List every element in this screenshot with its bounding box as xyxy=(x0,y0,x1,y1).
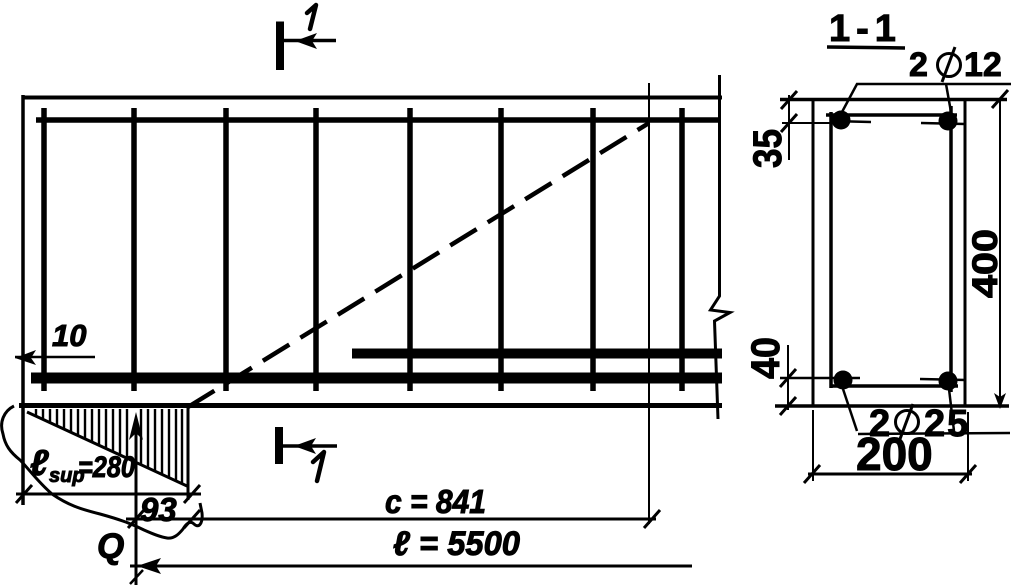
shear diagram hypotenuse xyxy=(27,412,187,486)
rebar dot bottom-right xyxy=(920,372,966,391)
label Q xyxy=(97,527,124,566)
section cut mark bottom xyxy=(279,427,337,464)
stirrup 8 xyxy=(679,108,685,391)
svg-text:93: 93 xyxy=(140,491,177,528)
dimension line l=5500 xyxy=(130,558,692,574)
top reinforcement bar xyxy=(36,117,721,123)
svg-text:12: 12 xyxy=(964,46,1002,84)
label lsup=280 xyxy=(30,442,135,487)
label c=841 xyxy=(385,483,486,520)
svg-text:Q: Q xyxy=(97,527,124,566)
dimension line lsup=280 xyxy=(16,485,201,503)
stirrup 3 xyxy=(223,108,229,391)
label 2d12 xyxy=(909,46,1002,84)
section stirrup inner rectangle xyxy=(826,106,958,392)
bottom reinforcement bar lower xyxy=(31,373,722,384)
svg-text:ℓ = 5500: ℓ = 5500 xyxy=(393,525,520,563)
shear diagram hatching xyxy=(36,409,182,484)
stirrup 5 xyxy=(407,108,413,391)
dimension 10 arrow and line xyxy=(15,350,95,365)
shear diagram right edge xyxy=(187,408,190,500)
dimension 40 xyxy=(780,345,860,415)
svg-text:c = 841: c = 841 xyxy=(385,483,486,520)
svg-text:200: 200 xyxy=(856,428,933,480)
leader 2d25 xyxy=(843,389,1010,434)
svg-text:400: 400 xyxy=(966,229,1005,298)
label 93 xyxy=(140,491,177,528)
rebar dot bottom-left xyxy=(834,371,853,390)
svg-text:1-1: 1-1 xyxy=(829,8,902,50)
beam right edge with break xyxy=(711,75,731,419)
beam outline top edge xyxy=(22,96,722,100)
svg-text:ℓ: ℓ xyxy=(30,442,49,483)
label 35 rotated xyxy=(746,129,790,168)
dimension 10 label xyxy=(52,318,86,353)
leader 2d12 xyxy=(842,84,1011,112)
beam outline bottom edge xyxy=(19,403,722,408)
svg-text:35: 35 xyxy=(746,129,790,168)
label 2d25 xyxy=(869,403,970,445)
label l=5500 xyxy=(393,525,520,563)
bottom reinforcement bar upper (cut-off bar) xyxy=(352,349,722,359)
label 400 rotated xyxy=(966,229,1005,298)
rebar dot top-left xyxy=(832,111,872,130)
section cut label 1 bottom xyxy=(313,452,324,481)
svg-text:40: 40 xyxy=(744,337,788,379)
dimension line 93 / c=841 xyxy=(126,510,660,528)
stirrup 7 xyxy=(590,108,596,391)
stirrup 1 xyxy=(41,108,47,391)
dimension 400 xyxy=(992,90,1008,409)
stirrup 4 xyxy=(313,108,319,391)
section cut label 1 top xyxy=(307,5,316,29)
section title 1-1 xyxy=(827,8,905,50)
beam outline left edge / extension line xyxy=(21,95,25,505)
rebar dot top-right xyxy=(921,112,965,131)
label 200 xyxy=(856,428,933,480)
stirrup 2 xyxy=(131,108,137,391)
dimension 35 xyxy=(781,91,830,160)
svg-text:2: 2 xyxy=(909,46,928,84)
dashed bar cut-off diagonal xyxy=(188,123,649,407)
svg-text:10: 10 xyxy=(52,318,86,353)
stirrup 6 xyxy=(498,108,504,391)
shear diagram freehand outline xyxy=(2,406,203,538)
extension line at bar cut-off xyxy=(648,83,650,524)
svg-text:=280: =280 xyxy=(78,451,135,484)
support reaction arrow Q xyxy=(129,412,143,585)
dimension 200 xyxy=(804,410,976,483)
label 40 rotated xyxy=(744,337,788,379)
section cut mark top xyxy=(280,22,336,71)
section outer rectangle xyxy=(775,98,1009,407)
